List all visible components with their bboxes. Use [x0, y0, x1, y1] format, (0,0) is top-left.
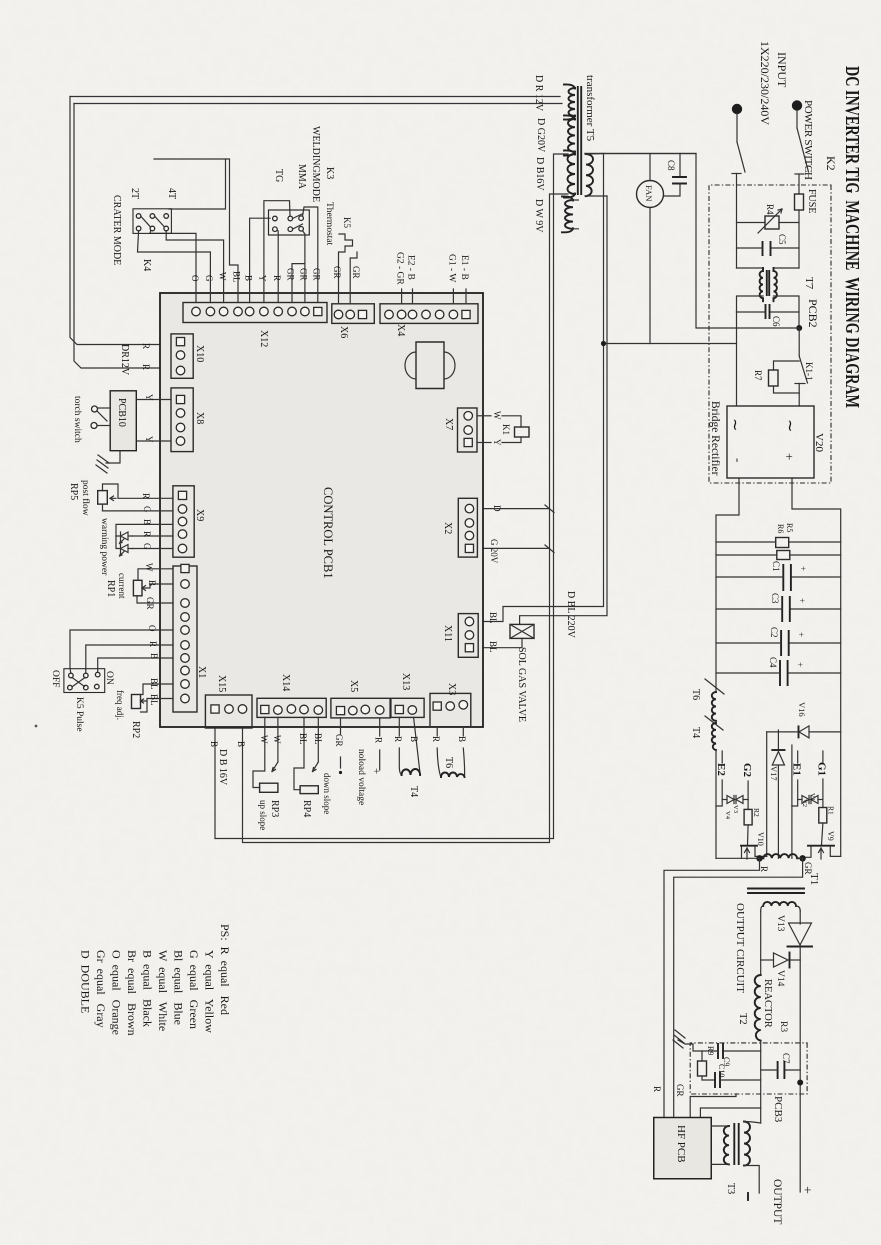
resistor R5 (bleeder): [789, 541, 841, 543]
svg-text:K4: K4: [141, 259, 152, 271]
X12 wire B: [250, 218, 270, 302]
svg-text:R9: R9: [706, 1046, 715, 1055]
tick G20V wire: [477, 545, 554, 553]
svg-text:SOL GAS VALVE: SOL GAS VALVE: [516, 647, 527, 722]
svg-text:R: R: [652, 1086, 662, 1092]
capacitor C1: [791, 576, 841, 578]
capacitor C4: [788, 672, 841, 674]
svg-text:torch switch: torch switch: [72, 396, 82, 443]
svg-text:V2: V2: [801, 799, 808, 807]
svg-text:B: B: [236, 741, 246, 747]
svg-text:Bridge Rectifier: Bridge Rectifier: [709, 401, 721, 476]
capacitor C5: [771, 247, 800, 249]
capacitor C3: [790, 608, 841, 610]
svg-text:+: +: [797, 598, 807, 603]
X4 wire G2-GR: [401, 289, 403, 304]
svg-text:G equal Green: G equal Green: [187, 950, 201, 1029]
varistor R4: [779, 222, 799, 224]
capacitor C9: [723, 1050, 761, 1052]
connector X1: [173, 566, 197, 712]
svg-text:K2: K2: [824, 156, 838, 171]
svg-text:R4: R4: [765, 204, 775, 215]
T5 16V winding: [568, 154, 576, 194]
svg-text:+: +: [370, 768, 382, 774]
svg-text:W: W: [272, 735, 282, 744]
T1 secondary: [763, 902, 796, 906]
gate stub G1: [822, 751, 824, 762]
legend color codes: [79, 924, 233, 1036]
svg-text:R: R: [142, 531, 152, 537]
svg-text:GR: GR: [332, 266, 342, 279]
svg-text:E1 - B: E1 - B: [459, 255, 469, 280]
relay contact K1-1: [798, 328, 800, 356]
output + rail: [799, 911, 801, 924]
svg-text:R: R: [431, 736, 441, 742]
svg-text:DC INVERTER TIG MACHINE WIRI: DC INVERTER TIG MACHINE WIRING DIAGRAM: [841, 66, 863, 408]
svg-text:C2: C2: [769, 627, 779, 638]
svg-text:BL: BL: [488, 612, 498, 624]
connector X2: [458, 498, 477, 557]
wire: bridge + output to top bus: [792, 478, 841, 856]
svg-text:RP5: RP5: [68, 483, 79, 500]
svg-text:V20: V20: [813, 433, 825, 452]
connector X14: [257, 698, 326, 717]
svg-text:WELDINGMODE: WELDINGMODE: [310, 126, 321, 202]
input terminal A: [792, 100, 802, 110]
svg-text:R: R: [148, 641, 158, 647]
wire R from mid node: [664, 858, 760, 1117]
IGBT V10: [741, 845, 757, 847]
resistor R6: [790, 554, 841, 556]
wires PCB3 to HF PCB: [690, 1094, 736, 1118]
svg-text:G 20V: G 20V: [489, 539, 499, 564]
zeners V1 V2: [818, 799, 823, 801]
speck: [35, 725, 38, 728]
svg-text:down slope: down slope: [322, 773, 332, 814]
svg-text:RP4: RP4: [301, 800, 312, 817]
svg-text:HF PCB: HF PCB: [675, 1125, 687, 1163]
mid rail (E1 side): [791, 745, 793, 858]
X12 wire GR2: [302, 230, 305, 303]
svg-text:T4: T4: [690, 727, 701, 738]
capacitor C6: [770, 311, 800, 313]
diode V16: [809, 731, 841, 733]
transformer T1 primary: [716, 857, 760, 859]
svg-text:V13: V13: [775, 915, 785, 932]
output - line: [760, 911, 762, 975]
svg-text:GR: GR: [803, 862, 813, 875]
relay coil K1: [477, 415, 491, 417]
fan supply line: [585, 153, 696, 155]
input terminal B: [732, 104, 742, 114]
svg-text:1X220/230/240V: 1X220/230/240V: [758, 41, 772, 125]
svg-text:+: +: [796, 632, 806, 637]
T5 primary 220V winding: [586, 154, 593, 196]
svg-text:D W 9V: D W 9V: [533, 199, 544, 233]
T6 sense winding: [436, 727, 438, 736]
svg-text:Y: Y: [492, 439, 502, 446]
svg-text:B equal Black: B equal Black: [141, 950, 155, 1027]
wire: bottom 220V line into bridge: [736, 312, 738, 406]
X4 wire G1-W: [452, 289, 454, 304]
warning power LEDs: [116, 524, 173, 536]
svg-text:T2: T2: [737, 1013, 748, 1025]
svg-text:T3: T3: [725, 1183, 736, 1194]
thermostat + K5-1: [339, 234, 353, 304]
svg-text:B: B: [409, 736, 419, 742]
svg-text:D BL 220V: D BL 220V: [565, 591, 576, 639]
svg-text:B: B: [209, 741, 219, 747]
svg-text:B: B: [142, 519, 152, 525]
X12 wire W: [166, 231, 223, 303]
resistor R7 (parallel with K1-1): [774, 361, 800, 370]
connector X13: [391, 698, 424, 717]
svg-text:R: R: [141, 364, 151, 370]
X5 GR wire: [340, 718, 342, 734]
svg-text:freq adj.: freq adj.: [115, 690, 125, 720]
capacitor C2: [789, 642, 841, 644]
torch switch PCB10: [136, 399, 171, 401]
X12 wire BL: [154, 159, 238, 303]
svg-text:OUTPUT CIRCUIT: OUTPUT CIRCUIT: [734, 903, 746, 993]
svg-text:R: R: [141, 493, 151, 499]
connector X5: [331, 698, 390, 718]
svg-text:Thermostat: Thermostat: [324, 202, 334, 246]
X12 wire O: [150, 230, 196, 303]
svg-text:BL: BL: [232, 271, 242, 283]
svg-text:X8: X8: [194, 412, 205, 424]
svg-text:O equal Orange: O equal Orange: [110, 950, 124, 1035]
svg-text:BL: BL: [488, 641, 498, 653]
svg-text:DR12V: DR12V: [119, 344, 130, 376]
emitter stub E1: [797, 751, 799, 763]
svg-text:+: +: [795, 662, 805, 667]
svg-text:R3: R3: [778, 1021, 788, 1032]
diode V14 (freewheel): [790, 959, 801, 961]
svg-text:Y: Y: [258, 275, 268, 282]
bridge rectifier V20: [727, 406, 814, 478]
svg-text:∼: ∼: [726, 418, 743, 431]
svg-text:K1: K1: [501, 424, 511, 435]
svg-text:D R 12V: D R 12V: [533, 75, 544, 112]
emitter stub E2: [721, 751, 723, 763]
svg-text:Gr equal Gray: Gr equal Gray: [94, 950, 108, 1028]
svg-text:X15: X15: [216, 675, 227, 692]
T5 20V winding: [568, 119, 575, 152]
transformer T7 (line filter): [774, 267, 800, 269]
CONTROL PCB1 board: [160, 293, 483, 727]
dashed box PCB3: [690, 1043, 807, 1094]
svg-text:C1: C1: [771, 561, 781, 572]
svg-text:FAN: FAN: [644, 185, 654, 201]
connector X15: [205, 695, 252, 728]
svg-text:B: B: [244, 275, 254, 281]
svg-text:R: R: [759, 866, 769, 872]
svg-text:CRATER MODE: CRATER MODE: [111, 195, 122, 265]
svg-text:G: G: [142, 543, 152, 550]
16V bus pair: [215, 154, 568, 839]
ground (PCB3): [693, 1044, 702, 1051]
svg-text:T4: T4: [408, 786, 419, 797]
svg-text:GR: GR: [351, 266, 361, 279]
X12 wire GR1: [292, 264, 305, 303]
pot RP4 down slope: [294, 717, 304, 789]
svg-text:Y: Y: [144, 394, 154, 401]
svg-text:C6: C6: [771, 316, 781, 327]
D R 12V loop wiring: [70, 97, 562, 104]
svg-text:BL: BL: [298, 733, 308, 745]
svg-text:∼: ∼: [781, 419, 798, 432]
reactor T2: [755, 975, 761, 1041]
svg-text:REACTOR: REACTOR: [762, 979, 773, 1028]
svg-text:E1: E1: [791, 763, 803, 776]
pot RP2 freq adj: [141, 684, 174, 695]
switch K2 pole 1 (top line): [796, 110, 798, 128]
svg-text:C7: C7: [781, 1053, 791, 1064]
svg-text:+: +: [799, 1186, 814, 1194]
transformer T3 core: [734, 1124, 738, 1164]
svg-text:D: D: [492, 505, 502, 512]
wire GR from mid node: [674, 858, 803, 1117]
svg-text:W: W: [218, 272, 228, 281]
svg-text:PCB3: PCB3: [772, 1096, 784, 1123]
svg-text:C10: C10: [717, 1064, 726, 1077]
svg-text:BL: BL: [149, 694, 159, 706]
svg-text:V16: V16: [797, 702, 807, 717]
svg-text:RP2: RP2: [130, 721, 141, 738]
switch K5 pulse on/off: [70, 630, 173, 674]
svg-text:G1 - W: G1 - W: [447, 254, 457, 282]
svg-text:+: +: [782, 453, 797, 460]
svg-text:X1: X1: [196, 666, 207, 678]
X4 wire E2-B: [412, 289, 414, 304]
svg-text:X14: X14: [280, 674, 291, 691]
svg-text:T6: T6: [443, 757, 454, 768]
connector X9: [173, 486, 194, 557]
node: half-bridge mid (R): [756, 855, 762, 861]
X12 wire GR3: [303, 207, 318, 303]
svg-text:R: R: [393, 736, 403, 742]
X12 wire R: [276, 230, 278, 303]
svg-text:BL: BL: [149, 678, 159, 690]
svg-text:R: R: [272, 275, 282, 281]
T4 sense winding: [398, 717, 400, 736]
svg-text:R7: R7: [753, 370, 763, 381]
T3 secondary (HF side): [724, 1126, 729, 1164]
svg-text:GR: GR: [145, 597, 155, 610]
svg-text:X5: X5: [348, 680, 359, 692]
svg-text:K3: K3: [324, 167, 335, 179]
svg-text:B: B: [457, 736, 467, 742]
relay footprint on PCB: [416, 342, 444, 389]
svg-text:G2 - GR: G2 - GR: [395, 252, 405, 285]
diode V17: [772, 749, 784, 751]
svg-text:V14: V14: [775, 970, 785, 987]
svg-text:X7: X7: [443, 418, 454, 430]
svg-text:+: +: [798, 566, 808, 571]
capacitor C8: [679, 154, 681, 178]
svg-text:warning power: warning power: [99, 518, 109, 576]
svg-text:OFF: OFF: [50, 670, 60, 687]
svg-text:R1: R1: [827, 806, 836, 815]
svg-text:X6: X6: [338, 326, 349, 338]
wire: bridge - output to bottom bus: [716, 478, 739, 692]
svg-text:C3: C3: [770, 593, 780, 604]
svg-text:V4: V4: [724, 811, 731, 820]
svg-text:W: W: [492, 411, 502, 420]
IGBT V9: [808, 845, 834, 847]
svg-text:2T: 2T: [129, 188, 140, 199]
resistor R9: [702, 1051, 718, 1061]
svg-text:PS: R equal Red: PS: R equal Red: [218, 924, 232, 1015]
HF PCB box: [654, 1118, 712, 1179]
diode V13: [789, 923, 812, 945]
svg-text:G1: G1: [816, 762, 828, 776]
svg-text:V17: V17: [769, 766, 779, 781]
svg-text:transformer T5: transformer T5: [584, 75, 596, 142]
svg-text:GR: GR: [675, 1084, 685, 1097]
svg-text:O: O: [190, 275, 200, 282]
svg-text:X2: X2: [442, 522, 453, 534]
resistor R2: [744, 809, 752, 825]
svg-text:GR: GR: [334, 734, 344, 747]
svg-text:W: W: [144, 563, 154, 572]
pot RP5 post flow: [103, 484, 174, 498]
svg-text:RP1: RP1: [105, 580, 116, 597]
svg-text:G: G: [142, 506, 152, 513]
connector X8: [171, 388, 193, 452]
dashed box PCB2: [709, 185, 831, 483]
svg-text:T1: T1: [808, 873, 820, 885]
node: half-bridge mid (GR): [799, 855, 805, 861]
svg-text:D B 16V: D B 16V: [217, 749, 228, 786]
wire: fan/T5 takeoff from 220V node: [585, 154, 799, 329]
svg-text:G: G: [204, 275, 214, 282]
svg-text:PCB2: PCB2: [806, 299, 820, 328]
PCB10 ground: [106, 451, 120, 463]
connector X7: [458, 408, 478, 452]
pot RP3 up slope: [253, 717, 265, 787]
svg-text:B: B: [149, 653, 159, 659]
X4 wire E1-B: [465, 289, 467, 304]
rail through V17: [777, 730, 779, 750]
220V rail A to valve area: [477, 154, 603, 622]
T5 9V winding: [565, 200, 573, 229]
connector X11: [458, 614, 478, 658]
X5 R wire (noload voltage): [379, 718, 381, 736]
svg-text:R: R: [141, 343, 151, 349]
svg-text:INPUT: INPUT: [775, 52, 789, 88]
pot RP1 current: [138, 569, 173, 581]
svg-text:D B16V: D B16V: [534, 157, 545, 191]
svg-text:V9: V9: [826, 831, 835, 841]
svg-text:C5: C5: [777, 234, 787, 245]
svg-text:MMA: MMA: [296, 164, 307, 190]
svg-text:BL: BL: [313, 733, 323, 745]
svg-text:V10: V10: [756, 832, 765, 846]
svg-text:C4: C4: [768, 657, 778, 668]
fuse F1: [795, 194, 804, 210]
node on + rail: [797, 1080, 803, 1086]
svg-text:C8: C8: [666, 160, 676, 171]
svg-text:CONTROL PCB1: CONTROL PCB1: [321, 487, 335, 579]
svg-text:GR: GR: [286, 268, 296, 281]
lower mid rail: [766, 732, 768, 857]
X12 wire G: [138, 231, 211, 303]
svg-text:K5: K5: [342, 217, 352, 228]
svg-text:R: R: [374, 737, 384, 743]
svg-text:post flow: post flow: [80, 480, 91, 516]
svg-text:PCB10: PCB10: [116, 398, 127, 427]
T5 12V winding: [569, 88, 576, 116]
svg-text:OUTPUT: OUTPUT: [771, 1179, 783, 1224]
svg-text:Bl equal Blue: Bl equal Blue: [172, 950, 186, 1025]
svg-text:GR: GR: [312, 268, 322, 281]
T1 core: [748, 889, 804, 894]
svg-text:4T: 4T: [166, 188, 177, 199]
svg-text:Br equal Brown: Br equal Brown: [125, 950, 139, 1036]
svg-text:V3: V3: [732, 805, 739, 813]
fan return drop: [604, 343, 737, 345]
switch K2 pole 2 (bottom line): [736, 114, 738, 143]
svg-text:E2 - B: E2 - B: [406, 255, 416, 280]
svg-text:R2: R2: [752, 808, 761, 817]
svg-text:R5: R5: [785, 523, 794, 532]
svg-text:current: current: [117, 573, 127, 599]
zeners V3 V4: [743, 799, 748, 801]
connector X6: [332, 304, 375, 324]
svg-text:E2: E2: [715, 763, 727, 776]
220V rail B to valve: [520, 196, 607, 624]
svg-text:X4: X4: [395, 324, 406, 336]
output minus mark: [747, 1193, 749, 1200]
svg-text:T7: T7: [803, 277, 815, 290]
X12 wire Y: [264, 201, 290, 303]
capacitor C10: [702, 1076, 715, 1080]
svg-text:FUSE: FUSE: [806, 189, 817, 213]
svg-text:B: B: [147, 580, 157, 586]
svg-text:RP3: RP3: [269, 800, 280, 817]
T5 core: [578, 87, 581, 194]
svg-text:noload voltage: noload voltage: [356, 749, 366, 805]
svg-text:X3: X3: [446, 683, 457, 695]
svg-text:T6: T6: [690, 689, 701, 700]
choke T4 on negative bus: [705, 716, 723, 730]
capacitor C7: [784, 1069, 800, 1071]
svg-text:Y: Y: [144, 436, 154, 443]
svg-text:W equal White: W equal White: [156, 950, 170, 1031]
svg-text:X11: X11: [442, 625, 453, 642]
svg-text:O: O: [147, 625, 157, 632]
choke T6 on negative bus: [705, 679, 724, 694]
svg-text:R6: R6: [776, 524, 785, 533]
FAN: [637, 181, 664, 208]
svg-text:ON: ON: [104, 671, 114, 685]
svg-text:V1: V1: [809, 793, 816, 801]
svg-text:D G20V: D G20V: [535, 118, 546, 153]
svg-text:TG: TG: [273, 169, 284, 182]
switch K3 welding mode: [269, 210, 310, 235]
switch K4 crater mode: [133, 209, 171, 234]
connector X10: [171, 334, 193, 378]
svg-text:D DOUBLE: D DOUBLE: [79, 950, 93, 1013]
svg-text:W: W: [259, 735, 269, 744]
svg-text:Y equal Yellow: Y equal Yellow: [203, 950, 217, 1033]
svg-text:X13: X13: [400, 673, 411, 690]
sol gas valve: [510, 624, 534, 638]
svg-text:X10: X10: [194, 345, 205, 362]
tick D wire: [477, 505, 554, 513]
